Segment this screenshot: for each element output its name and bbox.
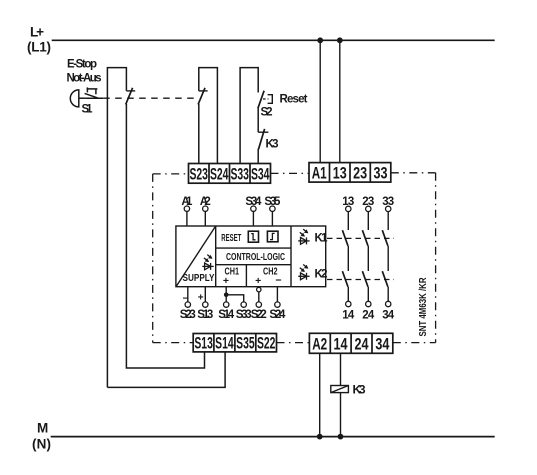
wire S2 to K3 contact (257, 108, 259, 132)
wire 33 column mid (387, 246, 389, 271)
wire L+ to terminal 13 (339, 40, 341, 162)
pin 24 (362, 301, 375, 321)
svg-text:Not-Aus: Not-Aus (67, 73, 102, 85)
svg-text:14: 14 (334, 336, 349, 354)
module inner box (176, 226, 326, 287)
pin 23 (362, 196, 374, 230)
svg-text:Reset: Reset (280, 94, 308, 106)
wire L+ to terminal A1 (319, 40, 321, 162)
relay coil K3 (331, 386, 349, 393)
svg-text:SNT 4M63K /KR: SNT 4M63K /KR (417, 277, 429, 336)
wire contact S1.1 to S13 loop (126, 104, 204, 368)
terminal block A2 14 24 34 (309, 333, 392, 353)
pin S22 bottom with plug circle (251, 287, 267, 321)
svg-text:E-Stop: E-Stop (67, 59, 97, 71)
svg-text:S14: S14 (215, 335, 234, 353)
node M (N) return rail label (32, 421, 51, 452)
wire 24 column lower (367, 287, 369, 301)
svg-text:A1: A1 (312, 165, 327, 183)
contact K3 (NO) (258, 129, 268, 149)
reset mode icon 1 (248, 231, 258, 242)
LED supply indicator (202, 255, 213, 270)
LED K1 indicator (298, 229, 309, 244)
svg-text:S23: S23 (180, 309, 196, 321)
junction dot 13 on L+ (337, 37, 343, 43)
contact S1 channel2 (NC) (198, 88, 208, 105)
svg-text:K3: K3 (266, 139, 279, 151)
node L+ (L1) supply rail label (27, 25, 51, 55)
svg-text:S14: S14 (218, 309, 235, 321)
wire K3 coil to M (340, 393, 342, 437)
wire channel2 loop S23-S24 (199, 68, 218, 164)
pin 13 (342, 196, 354, 230)
junction dot 14/K3 on M (338, 434, 344, 440)
svg-text:24: 24 (355, 336, 370, 354)
contact K2 23-24 (362, 271, 368, 287)
svg-text:34: 34 (375, 336, 390, 354)
wire M rail (51, 436, 495, 438)
wire 14 column lower (347, 287, 349, 301)
svg-text:(N): (N) (32, 437, 51, 452)
svg-text:−: − (183, 294, 189, 305)
pin S34 (245, 196, 262, 226)
svg-text:L+: L+ (30, 25, 44, 40)
pin S14 bottom with junction to S33 (218, 287, 244, 321)
pin S35 (264, 196, 281, 226)
pin S33 bottom (236, 302, 252, 321)
svg-text:34: 34 (382, 310, 395, 322)
svg-text:S33: S33 (236, 309, 252, 321)
svg-text:K2: K2 (315, 269, 328, 281)
wire 13 column mid (347, 246, 349, 271)
contact K1 23-24 (362, 230, 368, 246)
svg-text:(L1): (L1) (27, 40, 51, 55)
svg-text:S2: S2 (261, 107, 273, 119)
svg-text:S13: S13 (197, 309, 213, 321)
svg-text:S22: S22 (257, 335, 276, 353)
svg-text:CONTROL-LOGIC: CONTROL-LOGIC (226, 251, 285, 263)
pin A2 (200, 196, 211, 226)
contact K2 13-14 (342, 271, 348, 287)
svg-text:SUPPLY: SUPPLY (183, 273, 215, 284)
supply cell diagonal (176, 226, 215, 286)
pin S23 bottom (180, 287, 196, 321)
pin 14 (342, 301, 355, 321)
contact S1 channel1 (NC) (126, 88, 136, 105)
svg-text:24: 24 (362, 310, 375, 322)
svg-text:−: − (275, 275, 281, 287)
wire actuator dashed link S1 to contacts (103, 97, 196, 99)
wire reset loop S33-S34 (240, 68, 258, 164)
contact K2 33-34 (382, 271, 388, 287)
svg-text:+: + (223, 275, 229, 287)
contact K1 13-14 (342, 230, 348, 246)
wire K1 mechanical link dashed (327, 237, 394, 239)
junction dot A2 on M (317, 434, 323, 440)
svg-text:S24: S24 (269, 309, 286, 321)
wire K3 contact to S34 (257, 149, 259, 164)
wire 34 column lower (387, 287, 389, 301)
junction dot A1 on L+ (317, 37, 323, 43)
svg-text:13: 13 (333, 165, 347, 183)
svg-text:S34: S34 (251, 166, 270, 184)
pin S24 bottom (269, 287, 286, 321)
pin S13 bottom (197, 287, 213, 321)
pin A1 (181, 196, 193, 226)
svg-text:+: + (198, 293, 204, 304)
terminal block A1 13 23 33 (309, 163, 391, 183)
svg-text:14: 14 (342, 310, 355, 322)
terminal block S13 S14 S35 S22 (193, 334, 276, 352)
svg-text:M: M (37, 421, 48, 436)
reset mode icon 2 (267, 231, 278, 242)
reset button S2 (NO pushbutton) (258, 91, 272, 109)
wire K2 mechanical link dashed (327, 279, 394, 281)
svg-text:A2: A2 (312, 336, 327, 354)
svg-text:23: 23 (353, 165, 367, 183)
wire terminal A2 to M (319, 353, 321, 436)
svg-text:S1: S1 (82, 104, 94, 116)
svg-text:S23: S23 (189, 166, 208, 184)
wire S14 loop bottom (107, 352, 225, 387)
svg-text:K1: K1 (315, 233, 329, 245)
svg-text:S35: S35 (236, 335, 255, 353)
pin 33 (382, 196, 394, 230)
svg-text:S13: S13 (194, 335, 213, 353)
wire 23 column mid (367, 246, 369, 271)
svg-text:K3: K3 (353, 383, 366, 397)
svg-text:S24: S24 (210, 166, 229, 184)
LED K2 indicator (298, 265, 309, 280)
wire contact S1.2 down to S23 (198, 104, 200, 164)
svg-text:S33: S33 (230, 166, 249, 184)
wire e-stop channel1 loop bridge (107, 68, 126, 388)
contact K1 33-34 (382, 230, 388, 246)
svg-text:S22: S22 (251, 309, 267, 321)
svg-text:RESET: RESET (221, 233, 241, 244)
wire terminal 14 to K3 coil (340, 353, 342, 385)
wire L+ rail (52, 39, 495, 41)
svg-text:+: + (255, 275, 261, 287)
boundary dash-dot module outline (153, 173, 436, 343)
E-stop button S1 (70, 87, 103, 107)
terminal block S23 S24 S33 S34 (189, 164, 271, 184)
svg-text:33: 33 (374, 165, 388, 183)
pin 34 (382, 301, 395, 321)
